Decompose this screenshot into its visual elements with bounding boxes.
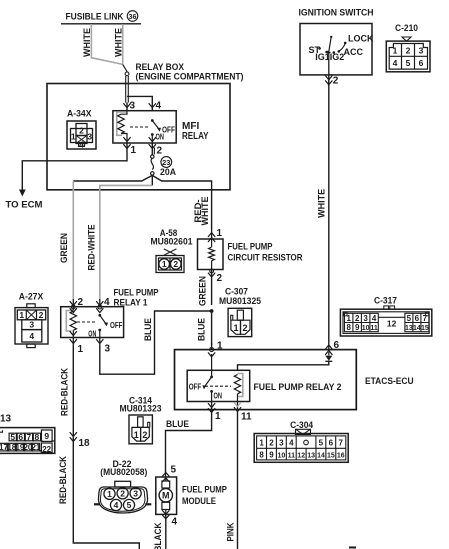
svg-text:4: 4: [289, 438, 294, 447]
svg-text:5: 5: [406, 58, 411, 68]
svg-text:C-317: C-317: [374, 296, 397, 307]
svg-text:4: 4: [393, 58, 398, 68]
svg-text:WHITE: WHITE: [316, 189, 327, 218]
svg-text:MU802601: MU802601: [151, 237, 194, 248]
svg-text:4: 4: [156, 101, 162, 112]
svg-text:1: 1: [259, 438, 264, 447]
svg-text:1: 1: [78, 344, 84, 355]
svg-text:BLUE: BLUE: [143, 318, 154, 341]
svg-text:RELAY 1: RELAY 1: [114, 298, 149, 309]
svg-text:5: 5: [127, 500, 132, 510]
svg-text:14: 14: [317, 452, 325, 459]
svg-text:RED-WHITE: RED-WHITE: [86, 225, 97, 271]
svg-text:6: 6: [415, 314, 420, 323]
svg-text:IG1: IG1: [315, 52, 330, 62]
svg-text:21: 21: [31, 443, 40, 452]
svg-text:8: 8: [346, 323, 351, 332]
svg-text:1: 1: [19, 310, 24, 320]
svg-text:11: 11: [370, 325, 378, 332]
svg-text:LOCK: LOCK: [348, 34, 374, 44]
svg-text:IG2: IG2: [330, 52, 345, 62]
svg-text:CIRCUIT RESISTOR: CIRCUIT RESISTOR: [228, 253, 303, 264]
svg-text:BLACK: BLACK: [153, 522, 164, 549]
svg-text:22: 22: [42, 445, 51, 454]
svg-text:4: 4: [29, 331, 34, 341]
svg-text:BLUE: BLUE: [196, 318, 207, 341]
svg-text:6: 6: [329, 438, 334, 447]
svg-text:C-210: C-210: [395, 23, 418, 34]
svg-text:2: 2: [217, 273, 223, 284]
svg-text:4: 4: [79, 139, 84, 149]
svg-text:RELAY: RELAY: [182, 131, 209, 142]
svg-text:3: 3: [419, 46, 424, 56]
svg-text:FUEL PUMP: FUEL PUMP: [182, 484, 228, 495]
svg-text:7: 7: [338, 438, 343, 447]
svg-text:TO ECM: TO ECM: [6, 200, 43, 210]
svg-text:1: 1: [346, 314, 351, 323]
svg-text:5: 5: [319, 438, 324, 447]
svg-text:A-34X: A-34X: [67, 109, 92, 120]
svg-text:12: 12: [297, 452, 305, 459]
svg-text:15: 15: [327, 452, 335, 459]
svg-text:FUSIBLE LINK: FUSIBLE LINK: [66, 11, 124, 21]
svg-text:FUEL PUMP RELAY 2: FUEL PUMP RELAY 2: [254, 381, 342, 392]
svg-text:5: 5: [10, 432, 15, 442]
svg-text:3: 3: [87, 131, 92, 141]
svg-text:1: 1: [134, 430, 139, 440]
svg-text:10: 10: [362, 325, 370, 332]
svg-text:6: 6: [419, 58, 424, 68]
svg-text:8: 8: [259, 450, 264, 459]
svg-text:ON: ON: [88, 329, 96, 339]
svg-text:18: 18: [79, 438, 91, 449]
svg-text:6: 6: [18, 432, 23, 442]
svg-text:MU801325: MU801325: [219, 296, 262, 307]
svg-text:4: 4: [372, 314, 377, 323]
svg-text:ACC: ACC: [344, 47, 364, 57]
svg-text:5: 5: [407, 314, 412, 323]
svg-text:RED-BLACK: RED-BLACK: [58, 456, 69, 504]
svg-text:GREEN: GREEN: [197, 276, 208, 306]
svg-text:10: 10: [278, 452, 286, 459]
svg-text:15: 15: [421, 325, 429, 332]
svg-text:C-304: C-304: [290, 420, 314, 431]
svg-text:4: 4: [104, 297, 110, 308]
svg-text:7: 7: [423, 314, 428, 323]
svg-text:3: 3: [279, 438, 284, 447]
svg-text:11: 11: [288, 452, 296, 459]
svg-text:ETACS-ECU: ETACS-ECU: [365, 375, 414, 386]
svg-text:3: 3: [363, 314, 368, 323]
svg-text:1: 1: [131, 145, 137, 156]
svg-text:BLUE: BLUE: [166, 419, 189, 430]
svg-text:2: 2: [157, 146, 163, 157]
svg-text:2: 2: [142, 430, 147, 440]
svg-text:MODULE: MODULE: [182, 496, 216, 507]
svg-text:2: 2: [355, 314, 360, 323]
svg-text:MU801323: MU801323: [120, 404, 162, 415]
svg-text:4: 4: [172, 517, 178, 528]
svg-text:ON: ON: [214, 391, 223, 401]
svg-text:3: 3: [105, 344, 111, 355]
svg-text:11: 11: [241, 412, 252, 423]
svg-text:8: 8: [35, 432, 40, 442]
svg-text:2: 2: [242, 323, 247, 333]
svg-text:GREEN: GREEN: [59, 233, 70, 263]
svg-text:IGNITION SWITCH: IGNITION SWITCH: [299, 8, 374, 18]
svg-text:OFF: OFF: [110, 320, 123, 330]
svg-text:13: 13: [307, 452, 315, 459]
svg-text:9: 9: [355, 323, 360, 332]
svg-text:1: 1: [233, 323, 238, 333]
svg-text:1: 1: [107, 489, 112, 499]
svg-text:2: 2: [120, 488, 125, 498]
svg-text:3: 3: [29, 320, 34, 330]
svg-text:3: 3: [133, 488, 138, 498]
svg-text:ON: ON: [156, 132, 165, 142]
svg-text:12: 12: [387, 319, 397, 329]
svg-text:2: 2: [333, 76, 339, 87]
svg-text:OFF: OFF: [189, 382, 202, 392]
svg-text:WHITE: WHITE: [113, 28, 124, 57]
svg-text:WHITE: WHITE: [200, 197, 211, 226]
svg-text:RED-BLACK: RED-BLACK: [59, 368, 70, 416]
svg-text:1: 1: [393, 46, 398, 56]
svg-text:1: 1: [162, 259, 167, 269]
svg-text:23: 23: [162, 158, 170, 167]
svg-text:2: 2: [173, 259, 178, 269]
svg-text:36: 36: [129, 12, 137, 21]
svg-text:M: M: [162, 490, 170, 500]
svg-text:A-27X: A-27X: [19, 292, 44, 303]
svg-text:20A: 20A: [160, 167, 176, 178]
svg-text:13: 13: [0, 414, 12, 425]
svg-text:9: 9: [44, 431, 49, 441]
svg-text:(MU802058): (MU802058): [100, 467, 147, 478]
svg-text:PINK: PINK: [226, 522, 237, 541]
svg-text:2: 2: [78, 297, 84, 308]
svg-text:3: 3: [130, 101, 136, 112]
svg-text:7: 7: [27, 432, 32, 442]
svg-text:1: 1: [215, 411, 221, 422]
svg-text:6: 6: [334, 340, 340, 351]
svg-text:2: 2: [406, 46, 411, 56]
svg-text:WHITE: WHITE: [82, 28, 93, 57]
svg-text:1: 1: [217, 228, 223, 239]
svg-text:13: 13: [405, 325, 413, 332]
svg-text:14: 14: [413, 325, 421, 332]
svg-text:4: 4: [114, 500, 119, 510]
svg-text:1: 1: [71, 131, 76, 141]
svg-text:16: 16: [337, 452, 345, 459]
svg-text:2: 2: [269, 438, 274, 447]
svg-text:2: 2: [39, 310, 44, 320]
svg-text:1: 1: [217, 341, 223, 352]
svg-text:2: 2: [79, 126, 84, 136]
svg-text:5: 5: [171, 465, 177, 476]
svg-text:9: 9: [269, 450, 274, 459]
svg-text:(ENGINE COMPARTMENT): (ENGINE COMPARTMENT): [136, 72, 244, 83]
svg-text:FUEL PUMP: FUEL PUMP: [228, 242, 274, 253]
